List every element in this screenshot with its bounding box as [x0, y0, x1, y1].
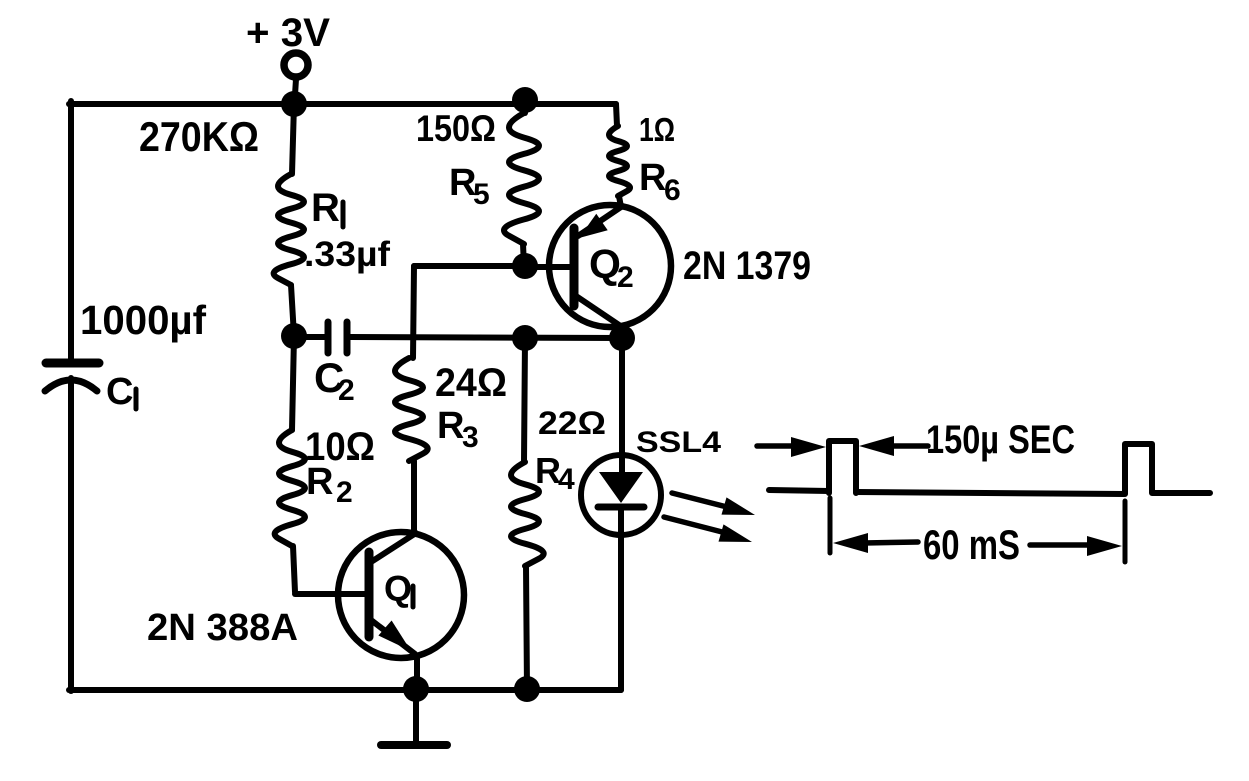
- svg-text:R: R: [311, 186, 340, 230]
- svg-text:R: R: [306, 461, 333, 503]
- svg-text:2N 1379: 2N 1379: [683, 244, 811, 288]
- svg-text:2: 2: [338, 374, 355, 407]
- svg-text:R: R: [639, 157, 666, 199]
- svg-text:24Ω: 24Ω: [435, 361, 507, 405]
- svg-text:SSL4: SSL4: [636, 426, 721, 459]
- svg-text:2N 388A: 2N 388A: [147, 607, 298, 649]
- svg-text:60 mS: 60 mS: [923, 521, 1020, 568]
- svg-text:5: 5: [473, 178, 490, 211]
- svg-text:1Ω: 1Ω: [639, 111, 675, 148]
- svg-text:270KΩ: 270KΩ: [139, 113, 259, 160]
- svg-text:22Ω: 22Ω: [538, 405, 606, 441]
- svg-text:R: R: [437, 405, 464, 447]
- svg-text:Q: Q: [384, 568, 412, 609]
- svg-text:C: C: [106, 371, 133, 413]
- svg-text:+ 3V: + 3V: [246, 11, 330, 55]
- svg-text:150Ω: 150Ω: [416, 108, 496, 149]
- svg-text:150µ SEC: 150µ SEC: [926, 418, 1075, 462]
- svg-text:3: 3: [462, 421, 479, 454]
- svg-text:4: 4: [558, 463, 575, 496]
- svg-text:1000µf: 1000µf: [80, 297, 206, 343]
- svg-text:.33µf: .33µf: [304, 235, 390, 274]
- svg-text:6: 6: [664, 174, 681, 207]
- svg-text:2: 2: [336, 476, 353, 509]
- svg-text:2: 2: [617, 261, 634, 294]
